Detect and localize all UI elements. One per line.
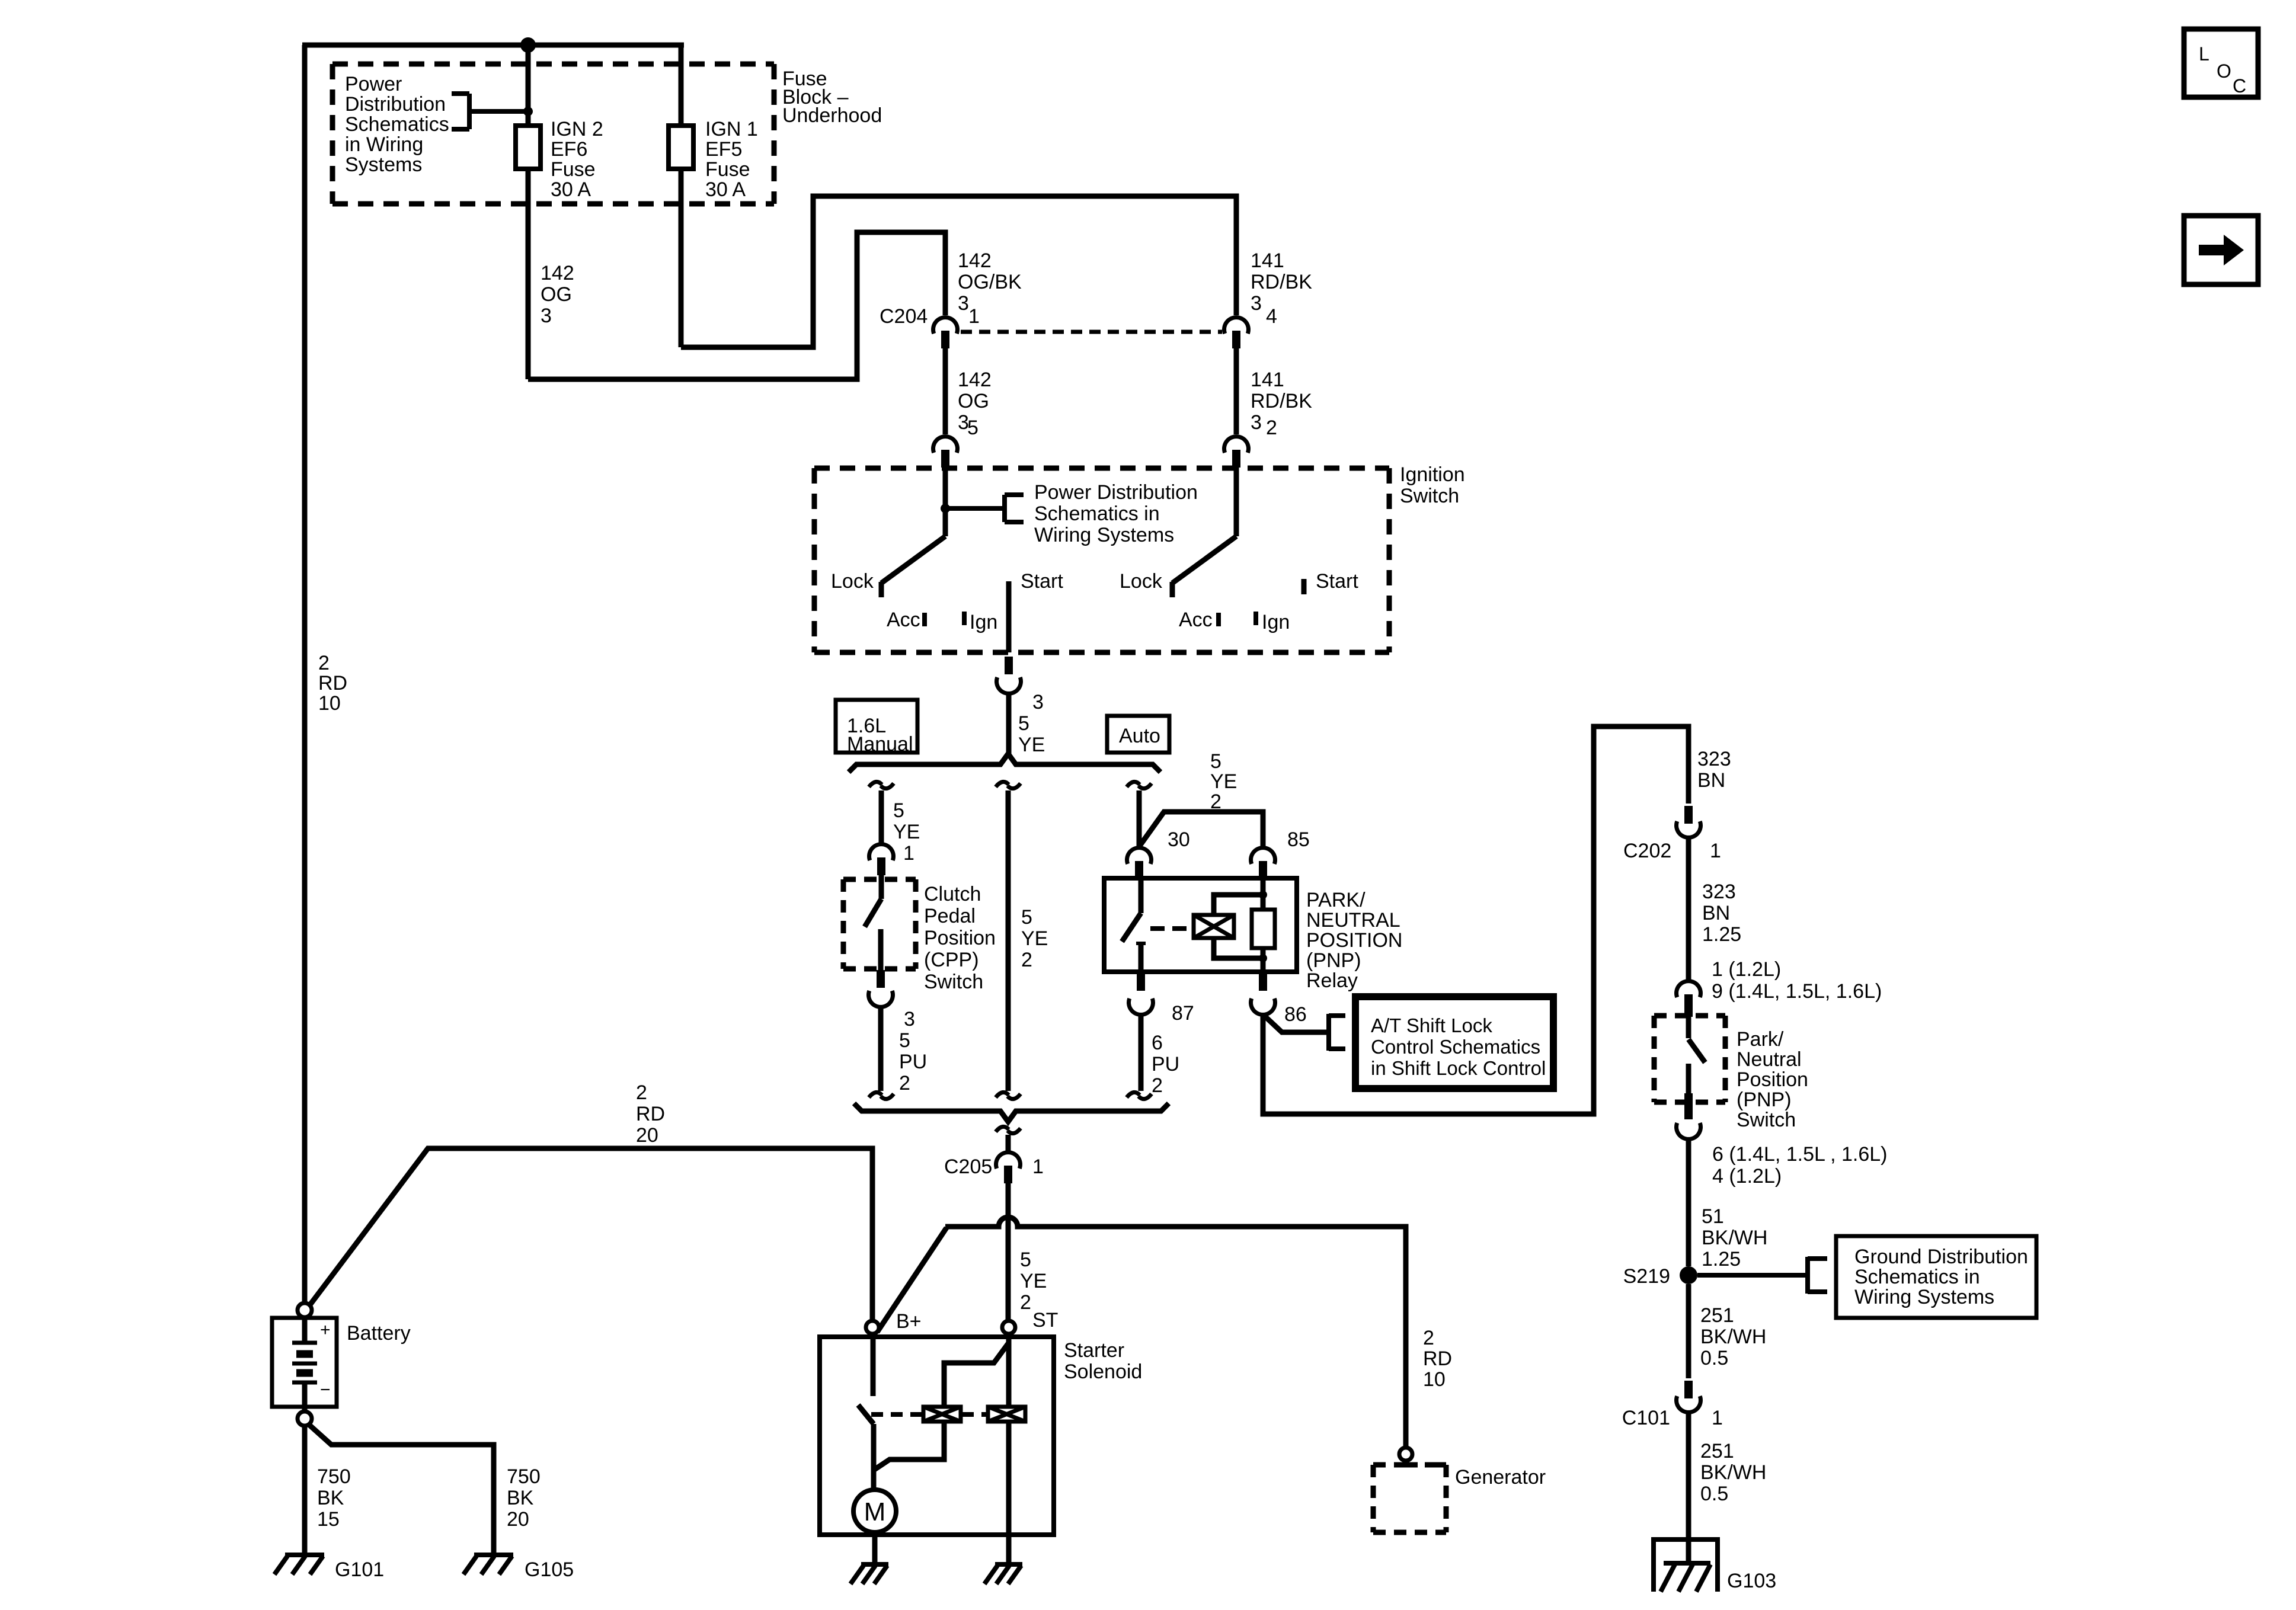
svg-text:OG/BK: OG/BK — [958, 271, 1022, 293]
svg-text:3: 3 — [904, 1008, 915, 1030]
svg-text:85: 85 — [1287, 828, 1310, 851]
svg-text:Systems: Systems — [345, 153, 422, 176]
svg-text:2: 2 — [1423, 1327, 1434, 1349]
svg-text:B+: B+ — [896, 1310, 922, 1333]
svg-text:C202: C202 — [1623, 840, 1671, 862]
svg-text:(PNP): (PNP) — [1306, 949, 1361, 972]
svg-text:RD: RD — [318, 672, 347, 694]
svg-text:87: 87 — [1172, 1002, 1194, 1025]
svg-text:2: 2 — [636, 1081, 647, 1104]
svg-text:2: 2 — [1021, 949, 1032, 971]
svg-text:Position: Position — [924, 927, 996, 949]
svg-text:(PNP): (PNP) — [1737, 1089, 1792, 1111]
svg-text:30 A: 30 A — [705, 178, 746, 201]
svg-text:5: 5 — [967, 417, 978, 439]
svg-text:Fuse: Fuse — [705, 158, 750, 181]
svg-text:142: 142 — [958, 369, 992, 391]
svg-text:PU: PU — [1152, 1053, 1179, 1076]
svg-text:1: 1 — [903, 842, 914, 865]
svg-text:G101: G101 — [335, 1558, 384, 1581]
svg-text:Ign: Ign — [1262, 611, 1290, 633]
svg-text:142: 142 — [541, 262, 574, 284]
svg-text:RD/BK: RD/BK — [1251, 271, 1312, 293]
svg-text:YE: YE — [1021, 927, 1048, 950]
svg-text:A/T Shift Lock: A/T Shift Lock — [1371, 1014, 1492, 1036]
svg-text:−: − — [320, 1380, 331, 1400]
svg-text:3: 3 — [1032, 691, 1044, 713]
svg-text:1 (1.2L): 1 (1.2L) — [1712, 958, 1781, 981]
svg-text:51: 51 — [1702, 1205, 1724, 1228]
svg-text:Start: Start — [1021, 570, 1063, 593]
svg-text:2: 2 — [899, 1072, 910, 1094]
svg-text:Distribution: Distribution — [345, 93, 446, 116]
svg-text:251: 251 — [1700, 1440, 1734, 1462]
svg-text:BK/WH: BK/WH — [1700, 1461, 1766, 1484]
svg-text:YE: YE — [1018, 734, 1045, 756]
svg-text:323: 323 — [1702, 881, 1736, 903]
svg-text:3: 3 — [958, 292, 969, 315]
svg-text:10: 10 — [318, 692, 341, 715]
svg-text:Switch: Switch — [924, 971, 983, 993]
svg-text:1: 1 — [1710, 840, 1721, 862]
svg-text:(CPP): (CPP) — [924, 949, 979, 971]
svg-text:S219: S219 — [1623, 1265, 1670, 1288]
svg-text:Acc: Acc — [1179, 609, 1213, 631]
svg-text:Solenoid: Solenoid — [1064, 1361, 1142, 1383]
svg-text:Ground Distribution: Ground Distribution — [1854, 1246, 2028, 1268]
svg-text:1.25: 1.25 — [1702, 923, 1741, 946]
svg-text:Start: Start — [1316, 570, 1358, 593]
svg-text:5: 5 — [893, 799, 904, 822]
svg-text:750: 750 — [507, 1465, 541, 1488]
svg-text:O: O — [2217, 60, 2231, 82]
svg-text:2: 2 — [1152, 1074, 1163, 1097]
svg-text:1: 1 — [968, 305, 980, 328]
svg-text:20: 20 — [636, 1124, 658, 1147]
svg-text:L: L — [2199, 43, 2209, 65]
svg-text:0.5: 0.5 — [1700, 1483, 1728, 1505]
svg-text:9 (1.4L, 1.5L, 1.6L): 9 (1.4L, 1.5L, 1.6L) — [1712, 980, 1882, 1003]
svg-text:Generator: Generator — [1455, 1466, 1546, 1489]
svg-text:5: 5 — [1018, 712, 1029, 735]
svg-text:Lock: Lock — [1120, 570, 1163, 593]
svg-text:30 A: 30 A — [551, 178, 591, 201]
svg-text:Lock: Lock — [831, 570, 874, 593]
svg-text:Park/: Park/ — [1737, 1028, 1784, 1051]
svg-text:30: 30 — [1168, 828, 1190, 851]
svg-text:OG: OG — [541, 283, 572, 306]
svg-text:Power Distribution: Power Distribution — [1034, 481, 1198, 504]
svg-text:3: 3 — [1251, 411, 1262, 434]
svg-text:C205: C205 — [944, 1156, 992, 1178]
svg-text:5: 5 — [1210, 750, 1221, 773]
svg-text:NEUTRAL: NEUTRAL — [1306, 909, 1400, 932]
svg-text:2: 2 — [1020, 1291, 1031, 1314]
svg-text:Position: Position — [1737, 1068, 1808, 1091]
svg-text:2: 2 — [1210, 790, 1221, 813]
svg-text:5: 5 — [1021, 906, 1032, 929]
svg-text:1: 1 — [1712, 1407, 1723, 1429]
svg-text:BK: BK — [317, 1487, 344, 1509]
svg-text:20: 20 — [507, 1508, 529, 1531]
svg-text:Wiring Systems: Wiring Systems — [1034, 524, 1174, 546]
svg-text:2: 2 — [318, 652, 330, 674]
svg-text:Switch: Switch — [1737, 1109, 1796, 1131]
svg-text:PU: PU — [899, 1051, 927, 1073]
svg-text:RD: RD — [636, 1103, 665, 1125]
svg-text:POSITION: POSITION — [1306, 929, 1402, 952]
svg-text:251: 251 — [1700, 1304, 1734, 1327]
svg-text:1: 1 — [1032, 1156, 1044, 1178]
svg-text:Acc: Acc — [887, 609, 920, 631]
svg-text:EF6: EF6 — [551, 138, 587, 161]
svg-text:10: 10 — [1423, 1368, 1446, 1391]
svg-text:Ignition: Ignition — [1400, 463, 1465, 486]
svg-text:Switch: Switch — [1400, 485, 1459, 507]
svg-text:Fuse: Fuse — [551, 158, 596, 181]
svg-text:3: 3 — [1251, 292, 1262, 315]
svg-text:3: 3 — [541, 305, 552, 327]
svg-text:C101: C101 — [1622, 1407, 1670, 1429]
svg-text:Neutral: Neutral — [1737, 1048, 1802, 1071]
svg-text:C204: C204 — [880, 305, 928, 328]
svg-text:Schematics in: Schematics in — [1034, 502, 1160, 525]
svg-text:142: 142 — [958, 249, 992, 272]
svg-text:323: 323 — [1697, 748, 1731, 770]
svg-text:+: + — [320, 1320, 331, 1340]
svg-text:G103: G103 — [1727, 1570, 1776, 1592]
svg-text:BK/WH: BK/WH — [1702, 1227, 1767, 1249]
svg-text:0.5: 0.5 — [1700, 1347, 1728, 1369]
svg-text:2: 2 — [1266, 417, 1277, 439]
svg-text:1.25: 1.25 — [1702, 1248, 1741, 1270]
svg-text:750: 750 — [317, 1465, 351, 1488]
svg-text:M: M — [864, 1497, 886, 1526]
svg-text:Manual: Manual — [847, 733, 913, 756]
svg-text:Clutch: Clutch — [924, 883, 981, 905]
svg-text:Battery: Battery — [347, 1322, 411, 1345]
svg-text:YE: YE — [1210, 770, 1237, 793]
svg-text:5: 5 — [899, 1029, 910, 1052]
svg-text:6: 6 — [1152, 1032, 1163, 1054]
svg-text:Underhood: Underhood — [782, 104, 882, 127]
svg-text:in Wiring: in Wiring — [345, 133, 423, 156]
svg-text:141: 141 — [1251, 249, 1284, 272]
svg-text:in Shift Lock Control: in Shift Lock Control — [1371, 1057, 1546, 1079]
svg-text:4 (1.2L): 4 (1.2L) — [1712, 1165, 1782, 1188]
svg-text:15: 15 — [317, 1508, 340, 1531]
svg-text:ST: ST — [1032, 1309, 1058, 1331]
svg-text:Starter: Starter — [1064, 1339, 1124, 1362]
svg-text:5: 5 — [1020, 1249, 1031, 1271]
svg-text:141: 141 — [1251, 369, 1284, 391]
svg-text:Control Schematics: Control Schematics — [1371, 1036, 1540, 1058]
svg-text:Power: Power — [345, 73, 402, 95]
svg-text:EF5: EF5 — [705, 138, 742, 161]
svg-text:86: 86 — [1284, 1003, 1307, 1026]
svg-text:Relay: Relay — [1306, 969, 1358, 992]
svg-text:YE: YE — [1020, 1270, 1047, 1292]
svg-text:RD/BK: RD/BK — [1251, 390, 1312, 412]
svg-text:Schematics: Schematics — [345, 113, 449, 136]
svg-text:IGN 2: IGN 2 — [551, 118, 603, 140]
svg-text:6 (1.4L, 1.5L , 1.6L): 6 (1.4L, 1.5L , 1.6L) — [1712, 1143, 1888, 1166]
svg-text:Schematics in: Schematics in — [1854, 1266, 1980, 1288]
svg-text:Auto: Auto — [1119, 725, 1160, 747]
svg-text:BK: BK — [507, 1487, 534, 1509]
svg-text:IGN 1: IGN 1 — [705, 118, 758, 140]
svg-text:Wiring Systems: Wiring Systems — [1854, 1286, 1994, 1308]
svg-text:RD: RD — [1423, 1347, 1452, 1370]
svg-text:PARK/: PARK/ — [1306, 889, 1366, 911]
svg-text:Pedal: Pedal — [924, 905, 976, 927]
svg-text:OG: OG — [958, 390, 989, 412]
svg-text:BK/WH: BK/WH — [1700, 1326, 1766, 1348]
svg-text:Ign: Ign — [970, 611, 997, 633]
svg-text:YE: YE — [893, 821, 920, 843]
svg-text:C: C — [2233, 75, 2246, 97]
svg-text:G105: G105 — [525, 1558, 574, 1581]
svg-text:BN: BN — [1697, 769, 1725, 792]
svg-text:4: 4 — [1266, 305, 1277, 328]
svg-text:BN: BN — [1702, 902, 1730, 924]
